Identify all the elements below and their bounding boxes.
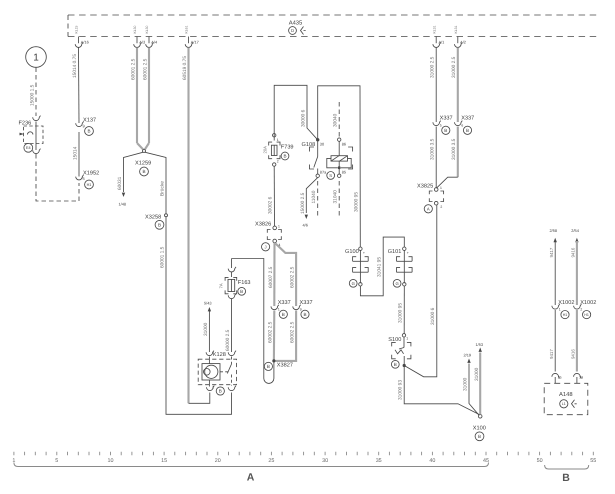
wire 30002 6 <box>268 166 275 226</box>
wire 60002 2.5 (below right) <box>276 311 297 361</box>
svg-text:B: B <box>158 222 161 227</box>
wire 9417 (lower) <box>549 310 555 372</box>
svg-text:25: 25 <box>268 458 274 464</box>
svg-text:Brücke: Brücke <box>160 181 166 196</box>
svg-text:1: 1 <box>33 53 39 64</box>
svg-text:30000 95: 30000 95 <box>354 192 360 212</box>
junction X1259 <box>135 150 151 176</box>
svg-text:1: 1 <box>277 138 279 142</box>
wire 9416 to 2/54 <box>570 228 579 305</box>
wire 60001 1.5 down to K128 <box>160 217 232 414</box>
svg-text:B: B <box>394 362 397 367</box>
wire 31000 2.5 (A/2) <box>451 48 458 123</box>
svg-text:X137: X137 <box>83 118 96 124</box>
svg-text:20: 20 <box>215 458 221 464</box>
svg-text:31000 3.5: 31000 3.5 <box>451 138 457 160</box>
svg-text:9417: 9417 <box>549 349 554 359</box>
svg-text:29: 29 <box>579 376 583 380</box>
svg-text:X1952: X1952 <box>83 171 99 177</box>
svg-text:31000 3.5: 31000 3.5 <box>430 138 436 160</box>
svg-text:B: B <box>478 434 481 439</box>
svg-text:1: 1 <box>440 186 442 190</box>
svg-text:D: D <box>291 28 294 33</box>
svg-text:20A: 20A <box>263 146 268 154</box>
svg-text:30002 6: 30002 6 <box>268 196 274 214</box>
svg-text:60001 2.5: 60001 2.5 <box>131 58 137 80</box>
svg-text:2: 2 <box>212 386 214 390</box>
fuse F739 <box>263 134 294 167</box>
svg-text:15: 15 <box>161 458 167 464</box>
svg-text:J: J <box>265 244 267 249</box>
wire 11040 (dashed stub) <box>311 181 318 216</box>
svg-text:15000 2.5: 15000 2.5 <box>300 192 306 214</box>
bracket A <box>14 463 489 484</box>
wire 60519 0.75 <box>182 48 210 404</box>
wire 30040 (dashed stub above coil) <box>333 102 340 138</box>
svg-text:KL31: KL31 <box>432 25 436 33</box>
bracket B <box>545 465 589 484</box>
svg-text:G100: G100 <box>345 249 359 255</box>
svg-text:A148: A148 <box>559 391 573 398</box>
svg-text:B: B <box>142 169 145 174</box>
wire 60000 2.5 <box>225 299 232 352</box>
junction X3258 <box>145 214 168 229</box>
svg-text:30000 6: 30000 6 <box>301 109 307 127</box>
connector X337 (left pair b) <box>293 300 313 318</box>
svg-text:H1: H1 <box>584 313 589 317</box>
wire 60001 2.5 (right) <box>143 48 150 150</box>
wire 15000 2.5 to 4/6 <box>300 178 318 228</box>
connector X1952 <box>76 171 99 189</box>
svg-text:31000: 31000 <box>203 322 209 336</box>
svg-text:31000 95: 31000 95 <box>398 303 404 323</box>
svg-text:X3827: X3827 <box>277 362 293 368</box>
svg-text:B: B <box>303 312 306 317</box>
svg-text:X1002: X1002 <box>580 300 596 306</box>
svg-text:B: B <box>282 312 285 317</box>
svg-text:X3825: X3825 <box>417 183 433 189</box>
connector X337 (left pair a) <box>271 300 291 318</box>
svg-text:2: 2 <box>440 205 442 209</box>
svg-text:31000 6: 31000 6 <box>430 307 436 325</box>
wire 60007 2.5 <box>268 243 275 306</box>
svg-text:86: 86 <box>342 142 346 147</box>
svg-text:31000 2.5: 31000 2.5 <box>430 56 436 78</box>
svg-text:E4: E4 <box>26 146 31 150</box>
svg-text:60000 2.5: 60000 2.5 <box>225 329 231 351</box>
svg-text:60002 2.5: 60002 2.5 <box>289 321 295 343</box>
A435 pin A/4 <box>145 25 158 47</box>
svg-text:60002 2.5: 60002 2.5 <box>267 321 273 343</box>
relay G108 <box>302 138 353 179</box>
svg-text:7A: 7A <box>219 283 224 288</box>
wire 15000 1.5 (dashed) <box>30 68 37 117</box>
svg-text:5/43: 5/43 <box>204 301 212 306</box>
svg-text:KL61: KL61 <box>185 25 189 33</box>
svg-text:9416: 9416 <box>570 247 575 257</box>
svg-text:40: 40 <box>429 458 435 464</box>
svg-text:50: 50 <box>537 458 543 464</box>
svg-text:85: 85 <box>342 170 346 175</box>
svg-text:9416: 9416 <box>570 349 575 359</box>
svg-text:31000 93: 31000 93 <box>398 380 404 400</box>
svg-text:B: B <box>283 154 286 159</box>
svg-text:2: 2 <box>580 308 582 312</box>
svg-text:31041 95: 31041 95 <box>377 257 383 277</box>
fuse F163 <box>219 259 251 299</box>
wire 9416 (lower) <box>570 310 577 372</box>
svg-text:5: 5 <box>440 124 442 128</box>
svg-text:6: 6 <box>461 124 463 128</box>
connector X337 (right pair a) <box>433 116 453 135</box>
wire 31000 93 to X100 <box>398 367 481 415</box>
circuit breaker F236 <box>19 116 44 154</box>
A435 pin A/17 <box>185 25 199 47</box>
svg-text:1/53: 1/53 <box>476 342 484 347</box>
wire 30000 bus right loop to G100 <box>318 86 361 247</box>
node 1 (off-page circle) <box>26 47 47 68</box>
connector X3825 <box>417 183 444 213</box>
dashed wire F236 to X1952 <box>36 154 79 201</box>
svg-text:87a: 87a <box>320 170 327 175</box>
ruler scale <box>12 452 596 464</box>
svg-text:1: 1 <box>559 308 561 312</box>
fuel pump unit K128 <box>198 351 236 396</box>
loop wire X3827 to F163 <box>232 259 274 384</box>
unit A148 pins <box>552 373 583 383</box>
svg-text:2/58: 2/58 <box>550 228 558 233</box>
battery G101 <box>388 247 412 287</box>
svg-text:60001 1.5: 60001 1.5 <box>160 246 166 268</box>
svg-text:9: 9 <box>300 308 302 312</box>
svg-text:H1: H1 <box>563 313 568 317</box>
control unit A435 dashed box <box>68 15 599 37</box>
svg-text:1: 1 <box>278 308 280 312</box>
svg-text:60002 2.5: 60002 2.5 <box>289 266 295 288</box>
svg-text:X337: X337 <box>300 300 313 306</box>
svg-text:31000: 31000 <box>463 377 469 391</box>
svg-text:B: B <box>444 128 447 133</box>
label A435 <box>289 20 306 35</box>
svg-text:9417: 9417 <box>549 247 554 257</box>
wire 31000 3.5 (right) <box>436 127 457 189</box>
svg-text:B: B <box>240 289 243 294</box>
bridge wire to X3258 <box>145 152 166 213</box>
svg-text:60007 2.5: 60007 2.5 <box>268 266 274 288</box>
wire 60001 2.5 (left) <box>131 48 144 150</box>
wire 60002 2.5 (below left) <box>267 311 274 360</box>
wire 15014 <box>73 132 80 177</box>
wire 31000 95 <box>398 286 405 334</box>
battery G100 <box>345 247 368 287</box>
wire 9417 to 2/58 <box>549 228 557 305</box>
svg-text:X100: X100 <box>473 426 486 432</box>
svg-text:B: B <box>267 364 270 369</box>
svg-text:X3258: X3258 <box>145 214 161 220</box>
connector X337 (right pair b) <box>455 116 475 135</box>
svg-text:X3826: X3826 <box>255 221 271 227</box>
svg-text:10: 10 <box>108 458 114 464</box>
svg-text:2: 2 <box>277 160 279 164</box>
svg-text:B: B <box>562 472 570 484</box>
svg-text:X1259: X1259 <box>135 161 151 167</box>
junction X100 <box>473 415 486 441</box>
branch to 1/48 <box>117 152 143 206</box>
svg-text:60519 0.75: 60519 0.75 <box>182 56 188 80</box>
svg-text:15014: 15014 <box>73 146 79 160</box>
svg-text:30: 30 <box>322 458 328 464</box>
A435 pin A/3 <box>133 25 145 47</box>
svg-text:X337: X337 <box>461 116 474 122</box>
svg-text:L1: L1 <box>562 402 566 406</box>
connector X1002 (right) <box>574 300 597 319</box>
svg-text:1: 1 <box>406 337 408 341</box>
svg-text:KL30: KL30 <box>145 25 149 33</box>
wire 60002 2.5 branch <box>276 244 297 307</box>
svg-text:A: A <box>247 472 255 484</box>
wire 31000 to 5/43 <box>203 301 212 353</box>
svg-text:60031: 60031 <box>117 176 123 190</box>
svg-text:G101: G101 <box>388 249 402 255</box>
connector X3826 <box>255 221 281 251</box>
svg-text:1: 1 <box>278 225 280 229</box>
svg-text:H1: H1 <box>87 183 92 187</box>
svg-text:5: 5 <box>83 176 85 181</box>
pressure switch S100 <box>388 334 411 369</box>
unit A148 dashed box <box>544 383 588 414</box>
wire 31000 to 1/53 <box>474 342 483 415</box>
svg-text:4/6: 4/6 <box>303 223 308 228</box>
svg-text:S: S <box>329 173 332 178</box>
svg-text:X337: X337 <box>440 116 453 122</box>
connector X1002 (left) <box>552 300 575 319</box>
wire 31000 2.5 (A/1) <box>430 48 437 123</box>
svg-text:KL15: KL15 <box>75 25 79 33</box>
junction X3827 <box>264 359 293 370</box>
svg-text:B: B <box>466 128 469 133</box>
wire 31000 3.5 (left) <box>430 127 437 188</box>
svg-text:B: B <box>87 129 90 134</box>
svg-text:F163: F163 <box>238 280 251 286</box>
svg-text:X1002: X1002 <box>558 300 574 306</box>
svg-text:25: 25 <box>558 376 562 380</box>
A435 pin A/16 <box>75 25 89 47</box>
svg-text:2/54: 2/54 <box>571 228 579 233</box>
wire 30000 bus left loop <box>274 85 318 140</box>
svg-text:15000 1.5: 15000 1.5 <box>30 84 36 106</box>
svg-text:15014 0.75: 15014 0.75 <box>72 54 78 78</box>
svg-text:+: + <box>363 251 365 255</box>
svg-text:A: A <box>427 206 430 211</box>
svg-text:KL30: KL30 <box>133 25 137 33</box>
svg-text:9: 9 <box>83 124 85 129</box>
svg-text:F739: F739 <box>281 145 294 151</box>
svg-text:31040: 31040 <box>333 190 339 204</box>
svg-text:60001 2.5: 60001 2.5 <box>143 58 149 80</box>
svg-text:1/48: 1/48 <box>119 202 127 207</box>
svg-text:31000 2.5: 31000 2.5 <box>451 56 457 78</box>
svg-text:5: 5 <box>55 458 58 464</box>
svg-text:30040: 30040 <box>333 113 339 127</box>
svg-text:+: + <box>407 251 409 255</box>
A435 pin A/2 <box>454 25 466 47</box>
wire 31000 to 2/19 <box>463 353 480 416</box>
svg-text:KL31: KL31 <box>454 25 458 33</box>
svg-text:2/19: 2/19 <box>464 353 472 358</box>
wire 31040 (dashed stub) <box>333 181 340 216</box>
svg-text:55: 55 <box>590 458 596 464</box>
wire 15014 0.75 <box>72 48 79 124</box>
svg-text:A435: A435 <box>289 20 303 27</box>
connector X137 <box>76 118 96 136</box>
svg-text:B: B <box>219 389 222 394</box>
svg-text:31000: 31000 <box>474 367 480 381</box>
svg-text:K128: K128 <box>213 352 226 358</box>
wire 31000 6 to X3825 <box>404 205 437 377</box>
svg-text:35: 35 <box>376 458 382 464</box>
svg-text:G: G <box>395 281 398 286</box>
svg-text:G: G <box>352 281 355 286</box>
A435 pin A/1 <box>432 25 444 47</box>
svg-text:X337: X337 <box>278 300 291 306</box>
wire 31041 95 battery link <box>360 237 404 296</box>
svg-text:11040: 11040 <box>311 190 317 203</box>
